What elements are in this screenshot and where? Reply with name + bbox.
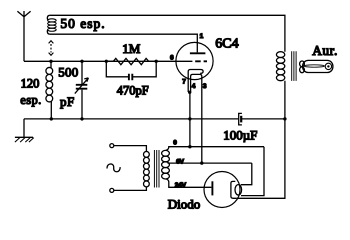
node A (coil top)	[49, 60, 52, 63]
svg-text:6C4: 6C4	[215, 37, 238, 52]
svg-text:0: 0	[173, 140, 177, 147]
svg-text:50 esp.: 50 esp.	[60, 16, 105, 31]
T2 core	[292, 51, 296, 81]
coil L2 120 esp.	[46, 61, 53, 119]
svg-text:pF: pF	[60, 94, 75, 109]
V1 plate	[190, 52, 206, 54]
capacitor C2 470pF (parallel branch)	[106, 61, 156, 80]
V1 pin 4/7 lead	[189, 92, 191, 146]
node D (R1 right)	[155, 60, 158, 63]
wire heater bottom to 0	[241, 147, 264, 196]
svg-text:120: 120	[21, 77, 40, 91]
tap 24V wire	[166, 179, 211, 187]
antenna	[17, 11, 30, 61]
T2 secondary	[300, 61, 305, 73]
ground bus wire	[24, 118, 285, 120]
wire grid bus	[24, 60, 192, 62]
node F (cap bottom)	[80, 117, 83, 120]
svg-text:esp.: esp.	[20, 93, 41, 107]
ground	[15, 119, 34, 142]
svg-text:500: 500	[58, 64, 78, 79]
T1 secondary	[162, 150, 170, 179]
node pins 4-7	[188, 91, 191, 94]
svg-text:7: 7	[182, 78, 186, 85]
svg-text:1M: 1M	[122, 41, 141, 56]
node B (cap 500 top)	[80, 60, 83, 63]
svg-text:1: 1	[200, 33, 204, 40]
resistor R1 1M	[106, 58, 156, 64]
wire top: coil L1 top to output transformer	[50, 15, 285, 51]
V1 grid (dashes)	[195, 60, 207, 62]
wire B+ vertical (transformer to diode cathode)	[236, 81, 285, 199]
tube V2 diode envelope	[204, 172, 240, 208]
svg-text:6: 6	[170, 55, 174, 62]
V2 plate	[211, 181, 213, 195]
earphone Aur.	[303, 60, 333, 72]
node I (pin4/7 to 0 tap)	[188, 145, 191, 148]
wire heater top to 6V	[241, 163, 252, 185]
node H (B+ / bus)	[283, 117, 286, 120]
svg-text:24V: 24V	[175, 182, 187, 189]
V1 cathode	[188, 70, 203, 93]
V2 cathode	[231, 181, 236, 198]
node J (pin3 to 6V tap)	[200, 161, 203, 164]
svg-text:Aur.: Aur.	[312, 43, 338, 58]
wire: coil L1 bottom to plate pin 1	[50, 34, 198, 52]
svg-text:6V: 6V	[176, 158, 185, 165]
node C (R1 left)	[105, 60, 108, 63]
transformer T2 output: primary	[276, 52, 284, 81]
tap 6V wire	[168, 162, 252, 164]
svg-text:3: 3	[203, 83, 207, 90]
tap 0 wire	[166, 147, 264, 151]
V1 heater	[191, 74, 202, 163]
T1 primary	[144, 151, 150, 186]
AC symbol	[107, 164, 120, 172]
transformer T1 power: left terminals	[110, 144, 147, 193]
capacitor C3 100uF	[239, 113, 242, 125]
tube V1 6C4 envelope	[176, 42, 213, 79]
capacitor C1 500pF variable	[75, 61, 89, 119]
svg-text:4: 4	[192, 83, 196, 90]
coupling arrow (dashed, double head)	[49, 41, 54, 56]
svg-text:Diodo: Diodo	[168, 197, 201, 212]
coil L1 50 esp.	[47, 15, 56, 34]
V2 heater ring	[235, 185, 242, 195]
svg-text:100µF: 100µF	[223, 127, 257, 142]
node G (heater/bus)	[188, 117, 191, 120]
svg-text:470pF: 470pF	[117, 84, 149, 98]
T1 core	[154, 150, 159, 188]
node E (coil bottom)	[50, 117, 53, 120]
